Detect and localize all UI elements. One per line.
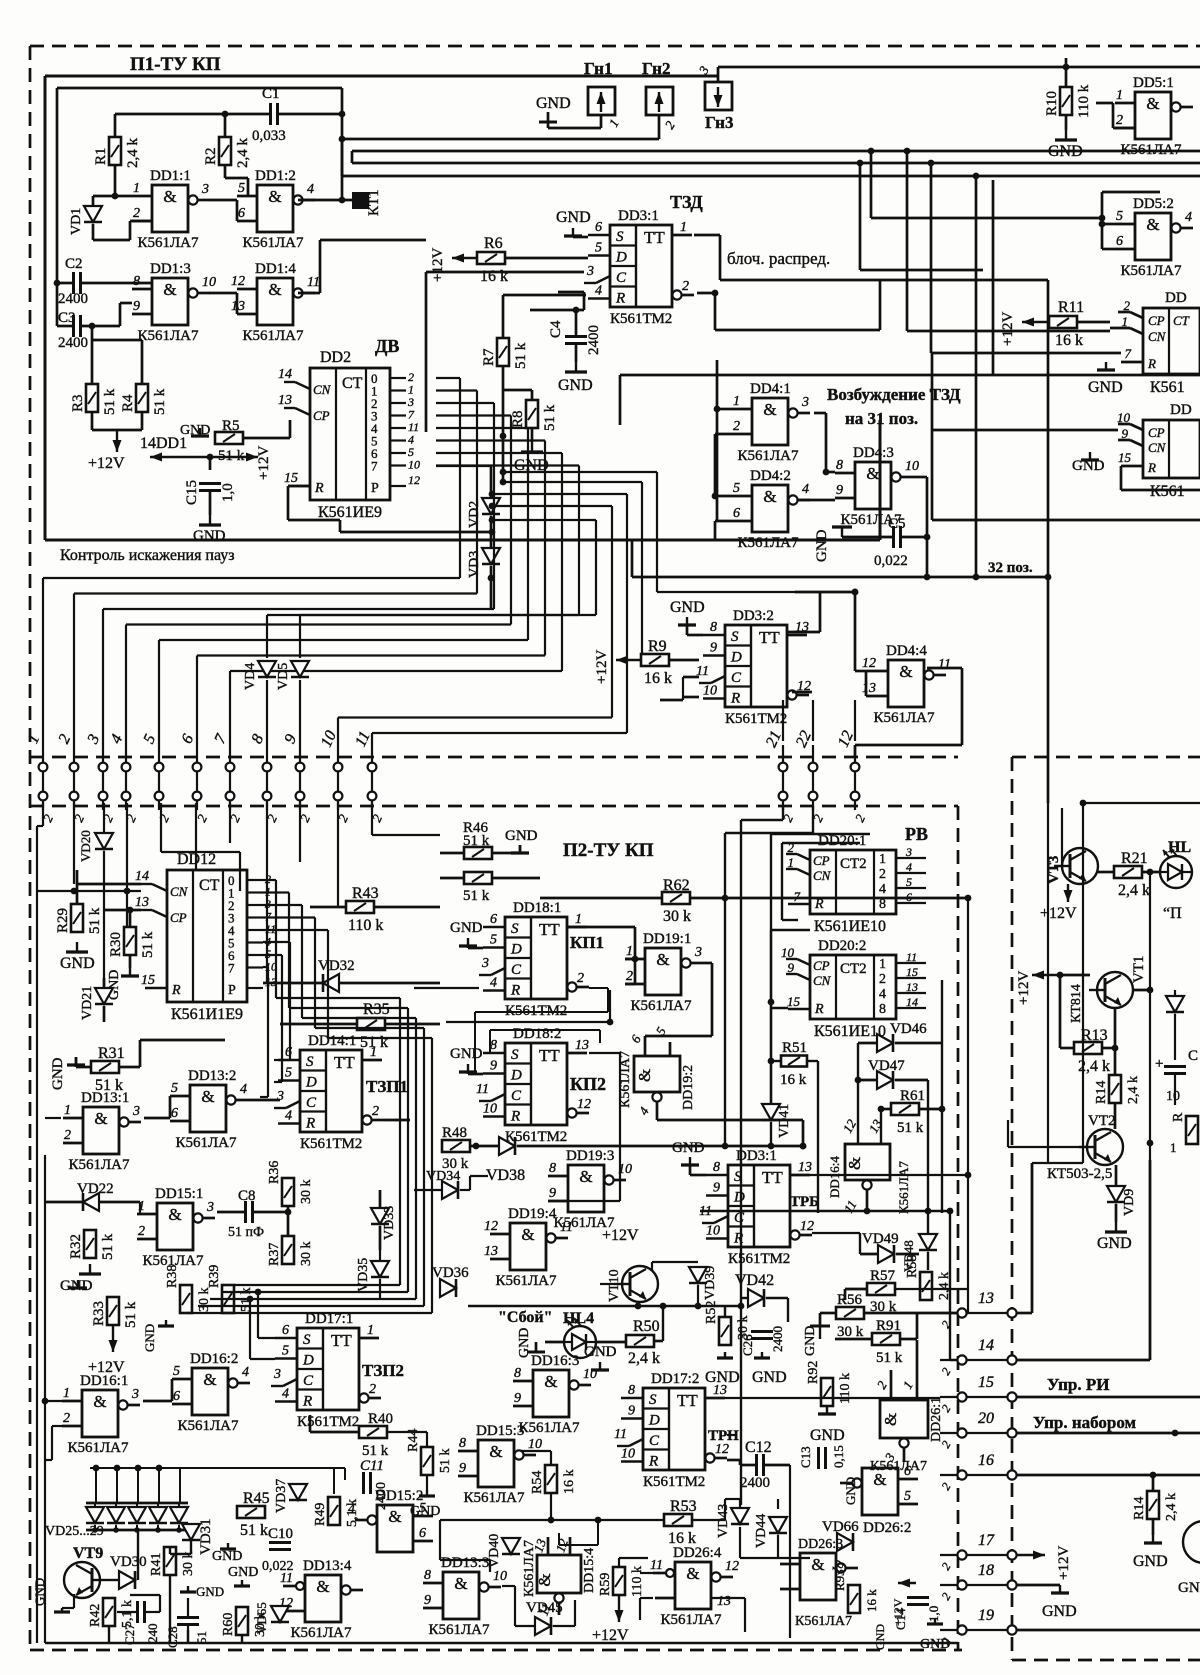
op gate DD4:4 — [888, 660, 924, 707]
capacitor C3 — [72, 315, 75, 337]
svg-text:5: 5 — [1116, 209, 1123, 224]
svg-text:VD5: VD5 — [276, 663, 291, 690]
op gate DD16:3 — [533, 1370, 569, 1417]
resistor R11 — [1049, 316, 1077, 328]
svg-text:+12V: +12V — [1056, 1546, 1072, 1580]
svg-text:GND: GND — [843, 1477, 858, 1505]
svg-text:К561ЛА7: К561ЛА7 — [896, 1161, 911, 1214]
resistor R37 — [282, 1236, 294, 1264]
svg-text:на 31 поз.: на 31 поз. — [845, 409, 918, 428]
svg-text:9: 9 — [424, 1593, 431, 1608]
svg-text:5: 5 — [285, 1066, 292, 1081]
wire mesh DD2 cascade — [436, 377, 460, 379]
op gate DD1:4 — [257, 278, 293, 325]
svg-text:&: & — [535, 1573, 554, 1586]
svg-text:Упр. РИ: Упр. РИ — [1047, 1375, 1109, 1394]
DD12 output cascade — [263, 879, 276, 881]
resistor R4 — [136, 384, 148, 412]
svg-text:VD41: VD41 — [777, 1104, 792, 1138]
resistor R33 arrow — [77, 1280, 79, 1288]
wire DD1:1 in — [114, 165, 117, 196]
svg-text:4: 4 — [240, 1082, 247, 1097]
svg-text:КП2: КП2 — [570, 1074, 606, 1094]
svg-text:3: 3 — [801, 395, 809, 410]
diode VD33 — [371, 1208, 389, 1224]
svg-text:9: 9 — [549, 1186, 556, 1201]
op gate DD13:2 — [190, 1085, 226, 1132]
svg-text:DD5:1: DD5:1 — [1133, 75, 1174, 91]
svg-text:R14: R14 — [1132, 1497, 1147, 1520]
svg-text:&: & — [93, 1392, 106, 1411]
svg-text:3: 3 — [132, 1104, 140, 1119]
diode VD20 — [95, 833, 113, 849]
svg-text:GND: GND — [505, 828, 538, 844]
svg-text:D: D — [305, 1075, 317, 1091]
counter DD7 (cut) — [1143, 420, 1200, 478]
svg-text:C: C — [303, 1373, 314, 1389]
svg-text:DD26:3: DD26:3 — [798, 1537, 843, 1552]
wire vert 771 — [770, 930, 773, 1105]
svg-text:VT9: VT9 — [73, 1545, 103, 1562]
svg-text:&: & — [521, 1225, 534, 1244]
svg-text:110 k: 110 k — [1076, 84, 1092, 118]
long horizontal DD18 feed — [446, 1021, 610, 1023]
svg-text:10: 10 — [621, 1447, 635, 1462]
svg-text:TT: TT — [677, 1391, 698, 1410]
diode VD48 — [919, 1234, 937, 1250]
diode VD44 — [769, 1517, 787, 1533]
svg-text:1: 1 — [367, 1323, 374, 1338]
connector pin 3 — [102, 745, 104, 810]
svg-text:GND: GND — [556, 209, 591, 226]
svg-text:Гн2: Гн2 — [642, 59, 670, 78]
svg-text:VD49: VD49 — [862, 1231, 899, 1247]
svg-text:К561ЛА7: К561ЛА7 — [737, 448, 799, 464]
svg-text:К561: К561 — [1150, 483, 1185, 500]
svg-text:VD20: VD20 — [78, 830, 93, 862]
svg-text:4: 4 — [242, 1365, 249, 1380]
svg-text:1: 1 — [63, 1386, 70, 1401]
test point KT1 — [298, 199, 352, 202]
resistor R49 — [328, 1497, 340, 1525]
svg-text:14: 14 — [278, 367, 292, 382]
resistors R46 R47 — [464, 847, 492, 859]
svg-text:VD45: VD45 — [526, 1600, 563, 1616]
svg-text:1: 1 — [788, 855, 795, 870]
svg-text:DD19:4: DD19:4 — [508, 1206, 557, 1222]
svg-text:6: 6 — [595, 220, 602, 235]
svg-text:5: 5 — [906, 875, 912, 889]
svg-text:R50: R50 — [633, 1318, 660, 1335]
svg-text:1: 1 — [133, 181, 140, 196]
resistor R58 — [920, 1272, 932, 1300]
svg-text:VD65: VD65 — [254, 1602, 269, 1634]
svg-text:С12: С12 — [745, 1439, 772, 1456]
P3 misc right edge — [1166, 996, 1184, 1012]
diode VD22 — [83, 1193, 99, 1211]
svg-text:CT: CT — [342, 375, 363, 392]
svg-text:GND: GND — [1072, 458, 1105, 474]
terminal wires right — [1017, 1312, 1032, 1315]
svg-text:1: 1 — [626, 944, 633, 959]
svg-text:R4: R4 — [120, 394, 136, 412]
svg-text:+12V: +12V — [430, 248, 446, 282]
svg-text:Возбуждение ТЗД: Возбуждение ТЗД — [827, 385, 961, 404]
diode VD5 — [291, 661, 309, 677]
svg-text:2400: 2400 — [58, 335, 88, 351]
bus horizontals mid right — [503, 471, 657, 473]
svg-text:DD13:4: DD13:4 — [303, 1558, 352, 1574]
svg-text:ТЗП1: ТЗП1 — [366, 1077, 408, 1096]
capacitor C12 — [755, 1454, 758, 1476]
svg-text:+12V: +12V — [1000, 312, 1016, 346]
wires DD3:2 — [683, 676, 699, 679]
svg-text:3: 3 — [201, 182, 209, 197]
svg-text:51 k: 51 k — [87, 907, 103, 934]
svg-text:&: & — [811, 1555, 824, 1574]
svg-text:GND: GND — [142, 1324, 157, 1352]
counter DD20:2 — [810, 955, 896, 1019]
svg-text:К561ЛА7: К561ЛА7 — [522, 1540, 537, 1597]
svg-text:C11: C11 — [360, 1458, 384, 1474]
svg-text:30 k: 30 k — [197, 1288, 212, 1313]
svg-text:2: 2 — [1124, 298, 1131, 313]
resistor R31 — [91, 1061, 119, 1073]
terminal 13 — [957, 1308, 966, 1317]
svg-text:P: P — [371, 481, 379, 496]
op gate DD1:1 — [152, 185, 188, 232]
svg-text:30 k: 30 k — [299, 1242, 314, 1267]
svg-text:CN: CN — [313, 382, 332, 397]
flip-flop DD18:1 — [505, 917, 567, 999]
РВ feed wires — [770, 834, 772, 930]
resistor R14 (P3) — [1147, 1491, 1159, 1519]
svg-text:&: & — [268, 187, 281, 206]
П2 rails 725/741 — [782, 806, 784, 820]
svg-text:S: S — [616, 229, 624, 245]
resistor R48 — [442, 1140, 470, 1152]
svg-text:D: D — [302, 1353, 314, 1369]
svg-text:DD4:2: DD4:2 — [750, 468, 791, 484]
svg-text:Гн3: Гн3 — [705, 113, 733, 132]
svg-text:VD39: VD39 — [703, 1266, 718, 1300]
diode VD46 — [877, 1034, 893, 1052]
capacitor C10 — [269, 1541, 291, 1544]
svg-text:GND: GND — [752, 1369, 787, 1386]
32 poz line — [632, 576, 1048, 579]
svg-text:6: 6 — [906, 890, 912, 904]
svg-text:10: 10 — [408, 458, 420, 472]
svg-text:51 k: 51 k — [542, 404, 558, 431]
svg-text:&: & — [686, 1564, 699, 1583]
svg-text:0,15: 0,15 — [831, 1445, 846, 1468]
svg-text:R53: R53 — [670, 1498, 697, 1515]
flip-flop DD17:2 — [643, 1388, 705, 1470]
svg-text:20: 20 — [978, 1410, 994, 1427]
svg-text:К561ЛА7: К561ЛА7 — [1120, 263, 1182, 279]
svg-text:6: 6 — [733, 506, 740, 521]
svg-text:VD33: VD33 — [382, 1206, 397, 1240]
terminal 15 — [957, 1392, 966, 1401]
transistor VT9 — [64, 1562, 100, 1598]
svg-text:VD38: VD38 — [486, 1167, 525, 1184]
wire vert 818 — [817, 1061, 819, 1213]
svg-text:30 k: 30 k — [663, 908, 691, 925]
svg-text:12: 12 — [577, 1097, 591, 1112]
diode VD34 — [442, 1181, 458, 1199]
flip-flop DD17:1 — [297, 1328, 359, 1410]
svg-text:К561ЛА7: К561ЛА7 — [67, 1440, 129, 1456]
resistor R45 — [237, 1506, 265, 1518]
svg-text:К561ЛА7: К561ЛА7 — [175, 1135, 237, 1151]
capacitor C26 — [751, 1330, 773, 1333]
svg-text:DD18:1: DD18:1 — [513, 900, 561, 916]
svg-text:14: 14 — [906, 995, 918, 1009]
resistor R7 — [497, 338, 509, 366]
svg-text:К561ЛА7: К561ЛА7 — [68, 1157, 130, 1173]
svg-text:2: 2 — [626, 969, 633, 984]
svg-text:14DD1: 14DD1 — [140, 435, 187, 452]
svg-text:R58: R58 — [905, 1255, 920, 1278]
resistor R2 — [219, 137, 231, 165]
svg-text:1: 1 — [733, 394, 740, 409]
svg-text:VD9: VD9 — [1122, 1189, 1137, 1216]
op gate DD26:2 — [862, 1468, 898, 1515]
svg-text:R62: R62 — [663, 877, 690, 894]
svg-text:DD16:4: DD16:4 — [827, 1156, 842, 1198]
diode VD41 — [762, 1104, 780, 1120]
svg-text:8: 8 — [549, 1161, 556, 1176]
svg-text:14: 14 — [135, 869, 149, 884]
svg-text:R51: R51 — [782, 1040, 807, 1056]
svg-text:4: 4 — [802, 482, 809, 497]
svg-text:R: R — [1147, 460, 1156, 475]
resistor R9 — [641, 654, 669, 666]
resistor R54 — [545, 1465, 557, 1493]
svg-text:DD19:3: DD19:3 — [566, 1148, 614, 1164]
capacitor C5 — [892, 526, 895, 548]
П2 left verticals from connector — [42, 803, 44, 826]
svg-text:&: & — [201, 1087, 214, 1106]
svg-text:16 k: 16 k — [644, 670, 672, 687]
svg-text:13: 13 — [862, 681, 876, 696]
svg-text:&: & — [635, 1069, 654, 1082]
svg-text:17: 17 — [978, 1532, 995, 1549]
П2 lower-left mesh — [45, 1117, 61, 1119]
svg-text:К561ЛА7: К561ЛА7 — [795, 1614, 852, 1629]
diode VD21 — [95, 988, 113, 1004]
rotated gate DD15:4 — [537, 1555, 581, 1593]
svg-text:R49: R49 — [313, 1503, 328, 1526]
svg-text:12: 12 — [484, 1219, 498, 1234]
svg-text:11: 11 — [307, 275, 320, 290]
svg-text:DD5:2: DD5:2 — [1133, 196, 1174, 212]
svg-text:К561ЛА7: К561ЛА7 — [660, 1612, 722, 1628]
capacitor C27 — [136, 1601, 139, 1623]
svg-text:&: & — [203, 1370, 216, 1389]
resistor R61 — [891, 1103, 919, 1115]
diode VD40 — [502, 1538, 520, 1554]
svg-text:10: 10 — [1117, 410, 1131, 425]
svg-text:К561ЛА7: К561ЛА7 — [428, 1622, 490, 1638]
top bus wires — [342, 138, 659, 141]
svg-text:18: 18 — [978, 1562, 994, 1579]
svg-text:DD19:2: DD19:2 — [681, 1065, 696, 1110]
connector pin 9 — [299, 745, 301, 810]
svg-text:R: R — [171, 983, 181, 998]
svg-text:К561ЛА7: К561ЛА7 — [137, 235, 199, 251]
svg-text:TT: TT — [334, 1053, 355, 1072]
diode VD65 — [271, 1606, 289, 1622]
svg-text:GND: GND — [1088, 379, 1123, 396]
svg-text:6: 6 — [282, 1323, 289, 1338]
svg-text:DD: DD — [1170, 402, 1192, 418]
svg-text:6: 6 — [419, 1526, 426, 1541]
resistor R8 — [526, 400, 538, 428]
svg-text:1: 1 — [879, 852, 886, 867]
resistor R5 — [215, 432, 243, 444]
svg-text:11: 11 — [906, 950, 917, 964]
terminal 17 — [957, 1550, 966, 1559]
svg-text:15: 15 — [141, 973, 155, 988]
svg-text:2: 2 — [372, 1104, 379, 1119]
svg-text:C4: C4 — [548, 320, 564, 338]
svg-text:DD20:1: DD20:1 — [818, 833, 866, 849]
svg-text:DD16:3: DD16:3 — [531, 1353, 579, 1369]
svg-text:К561ТМ2: К561ТМ2 — [297, 1414, 359, 1430]
svg-text:4: 4 — [490, 976, 497, 991]
svg-text:2,4 k: 2,4 k — [125, 138, 141, 169]
svg-text:VD66: VD66 — [822, 1519, 859, 1535]
LED HL — [1160, 856, 1192, 888]
svg-text:VT1: VT1 — [1131, 956, 1147, 984]
svg-text:15: 15 — [906, 965, 918, 979]
svg-text:&: & — [845, 1157, 864, 1170]
svg-text:8: 8 — [514, 1366, 521, 1381]
svg-text:6: 6 — [171, 1106, 178, 1121]
svg-text:16 k: 16 k — [480, 268, 508, 285]
svg-text:R: R — [615, 291, 625, 307]
svg-text:CN: CN — [1148, 329, 1167, 344]
svg-text:6: 6 — [238, 206, 245, 221]
svg-text:D: D — [733, 1190, 745, 1206]
svg-text:GND: GND — [670, 599, 705, 616]
svg-text:10: 10 — [781, 945, 795, 960]
svg-text:R10: R10 — [1044, 91, 1060, 116]
svg-text:9: 9 — [836, 483, 843, 498]
op gate DD19:3 — [568, 1165, 604, 1212]
svg-text:&: & — [94, 1109, 107, 1128]
diode VD9 — [1107, 1186, 1125, 1202]
capacitor C13 — [817, 1447, 820, 1469]
svg-text:VD36: VD36 — [432, 1265, 469, 1281]
transistor VT1 — [1097, 972, 1133, 1008]
capacitor C28 — [177, 1616, 199, 1619]
svg-text:CP: CP — [170, 910, 187, 925]
svg-text:D: D — [730, 650, 742, 666]
svg-text:GND: GND — [803, 1326, 818, 1356]
terminal 16 — [957, 1470, 966, 1479]
op gate DD13:4 — [305, 1575, 341, 1622]
connector pin 1 — [42, 745, 44, 810]
svg-text:ТРБ: ТРБ — [790, 1194, 819, 1210]
svg-text:C15: C15 — [184, 480, 200, 505]
svg-text:DD18:2: DD18:2 — [513, 1026, 561, 1042]
resistor R40 — [359, 1426, 387, 1438]
svg-text:R59: R59 — [598, 1573, 613, 1596]
svg-text:С26: С26 — [740, 1334, 755, 1356]
svg-text:К561ТМ2: К561ТМ2 — [610, 311, 672, 327]
resistor R6 — [477, 252, 505, 264]
svg-text:R: R — [814, 897, 824, 912]
svg-text:C8: C8 — [238, 1188, 256, 1204]
svg-text:GND: GND — [1133, 1553, 1168, 1570]
svg-text:GND: GND — [50, 1057, 66, 1090]
resistor R21 — [1114, 866, 1142, 878]
svg-text:&: & — [544, 1372, 557, 1391]
diode VD31 — [182, 1524, 200, 1540]
svg-text:GND: GND — [212, 1549, 242, 1564]
svg-text:&: & — [1146, 94, 1159, 113]
resistor R92 — [821, 1378, 833, 1406]
svg-text:&: & — [163, 187, 176, 206]
svg-text:4: 4 — [348, 1502, 355, 1517]
svg-text:GND: GND — [1048, 143, 1083, 160]
svg-text:2400: 2400 — [586, 325, 602, 355]
svg-text:К561И1Е9: К561И1Е9 — [171, 1006, 243, 1023]
long right verticals — [1047, 803, 1049, 1163]
resistor R35 — [357, 1018, 385, 1030]
svg-text:R61: R61 — [900, 1088, 925, 1104]
svg-text:10: 10 — [528, 1437, 542, 1452]
svg-text:51 k: 51 k — [876, 1350, 903, 1366]
svg-text:R93: R93 — [832, 1569, 847, 1591]
svg-text:9: 9 — [788, 960, 795, 975]
op gate DD4:2 — [752, 485, 788, 532]
svg-text:16 k: 16 k — [780, 1072, 807, 1088]
svg-text:3: 3 — [694, 945, 702, 960]
+12V arrow P3 — [1032, 974, 1058, 976]
resistor R44 — [421, 1447, 433, 1475]
svg-text:13: 13 — [978, 1290, 994, 1307]
connector pin 12 — [854, 745, 856, 810]
svg-text:11: 11 — [938, 657, 951, 672]
svg-text:6: 6 — [1116, 234, 1123, 249]
capacitor C11 — [362, 1472, 365, 1494]
diode VD39 — [689, 1267, 707, 1283]
svg-text:DD13:3: DD13:3 — [441, 1555, 489, 1571]
svg-text:R45: R45 — [243, 1490, 270, 1507]
svg-text:19: 19 — [978, 1607, 994, 1624]
resistor R10 — [1060, 87, 1072, 115]
svg-text:13: 13 — [717, 1594, 731, 1609]
svg-text:16 k: 16 k — [864, 1589, 879, 1612]
svg-text:Упр. набором: Упр. набором — [1033, 1413, 1137, 1432]
svg-text:&: & — [579, 1167, 592, 1186]
svg-text:10: 10 — [706, 1224, 720, 1239]
op gate DD26:4 — [675, 1562, 711, 1609]
svg-text:К561ЛА7: К561ЛА7 — [242, 235, 304, 251]
svg-text:GND: GND — [814, 529, 830, 562]
svg-text:DD17:2: DD17:2 — [651, 1371, 699, 1387]
svg-text:S: S — [511, 1047, 519, 1063]
terminal 20 — [957, 1428, 966, 1437]
svg-text:К561ТМ2: К561ТМ2 — [728, 1251, 790, 1267]
svg-text:110 k: 110 k — [838, 1373, 853, 1404]
svg-text:VD21: VD21 — [80, 986, 95, 1020]
svg-text:“П: “П — [1163, 905, 1182, 922]
bottom long wire — [45, 1642, 958, 1644]
